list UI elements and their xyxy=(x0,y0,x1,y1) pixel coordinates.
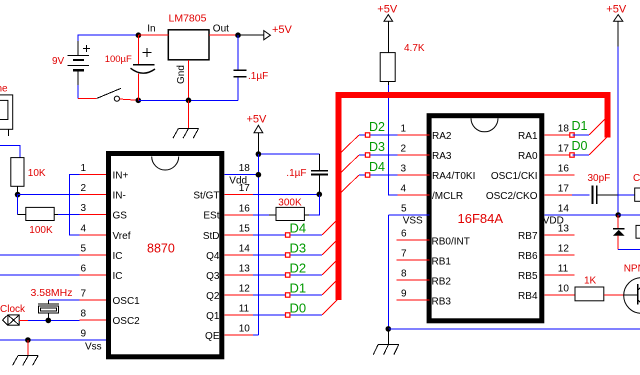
svg-text:D1: D1 xyxy=(572,119,588,133)
svg-text:16F84A: 16F84A xyxy=(458,211,504,226)
wire In xyxy=(138,34,168,36)
wire IC pin5 xyxy=(0,254,80,256)
svg-text:30pF: 30pF xyxy=(588,173,611,184)
svg-text:6: 6 xyxy=(401,229,407,240)
wire 100K to GS xyxy=(54,214,58,216)
pin labels PIC right xyxy=(486,131,538,302)
wire cap to crystal xyxy=(618,194,635,196)
svg-text:11: 11 xyxy=(239,304,250,315)
resistor R1 10K xyxy=(11,158,46,195)
pin stub RA0 / wire D0 xyxy=(544,154,570,156)
wire diode bottom right xyxy=(618,249,640,251)
pin stub OSC2/CKO xyxy=(544,194,589,196)
svg-text:IC: IC xyxy=(113,271,123,282)
node D2 tap xyxy=(286,273,290,277)
pin stub OSC1/CKI xyxy=(544,174,574,176)
svg-text:12: 12 xyxy=(239,284,251,295)
wire to 300K xyxy=(309,195,319,215)
relay (cut at edge) xyxy=(636,225,640,238)
svg-text:3: 3 xyxy=(401,164,407,175)
svg-text:300K: 300K xyxy=(278,197,302,208)
wire Gnd stub xyxy=(188,60,190,101)
node +5V junction xyxy=(256,151,262,157)
svg-text:4.7K: 4.7K xyxy=(404,43,425,54)
wire to ground xyxy=(27,340,29,355)
pin numbers 8870 right xyxy=(239,163,251,334)
wire phone line to 10K xyxy=(0,145,20,157)
clock source symbol xyxy=(3,315,20,325)
pin stub Q2 / wire D1 xyxy=(224,294,322,296)
svg-text:3: 3 xyxy=(81,203,87,214)
wire battery to switch xyxy=(78,97,97,99)
wire D3 diagonal from bus xyxy=(341,155,359,173)
node D0 tap (PIC) xyxy=(570,153,574,157)
ground xyxy=(373,344,399,354)
ground xyxy=(13,355,39,365)
pin numbers PIC right xyxy=(558,124,570,295)
pin labels 8870 left xyxy=(113,171,141,327)
node D2 tap (PIC) xyxy=(365,133,369,137)
svg-text:Out: Out xyxy=(213,24,229,35)
node D4 tap xyxy=(286,233,290,237)
wire bottom rail xyxy=(138,99,238,101)
pin stub ESt xyxy=(224,214,276,216)
bus (thick red) xyxy=(339,95,608,300)
node crystal/OSC2 junction xyxy=(46,318,52,324)
svg-text:2: 2 xyxy=(81,183,87,194)
pin stub RB4 xyxy=(544,294,575,296)
wire IN- row xyxy=(18,194,80,196)
svg-text:OSC2: OSC2 xyxy=(113,316,141,327)
+5V arrow top right xyxy=(606,3,627,46)
svg-text:10K: 10K xyxy=(28,168,46,179)
wire D2 diagonal from bus xyxy=(341,135,359,153)
svg-text:9V: 9V xyxy=(52,56,65,67)
svg-text:3.58MHz: 3.58MHz xyxy=(31,287,73,299)
resistor R6 1K xyxy=(575,275,604,301)
svg-text:4: 4 xyxy=(81,224,87,235)
svg-text:5: 5 xyxy=(401,204,407,215)
node VSS rail junction xyxy=(386,326,392,332)
svg-text:1K: 1K xyxy=(584,275,597,286)
svg-text:Q4: Q4 xyxy=(206,251,220,262)
resistor R2 100K xyxy=(26,207,54,236)
svg-text:IN-: IN- xyxy=(113,191,126,202)
svg-text:5: 5 xyxy=(81,244,87,255)
svg-text:Clock: Clock xyxy=(0,304,26,315)
svg-text:8870: 8870 xyxy=(147,242,175,256)
svg-text:RB5: RB5 xyxy=(518,271,538,282)
wire to ground xyxy=(387,329,389,345)
svg-text:4: 4 xyxy=(401,184,407,195)
wire 100K branch xyxy=(17,195,19,215)
svg-text:D2: D2 xyxy=(290,260,307,275)
svg-text:C: C xyxy=(633,173,640,184)
svg-text:GS: GS xyxy=(113,211,128,222)
wire VSS down to rail xyxy=(387,215,389,329)
pin stub Q4 / wire D3 xyxy=(224,254,322,256)
wire OSC1 pin7 xyxy=(48,299,79,301)
svg-text:LM7805: LM7805 xyxy=(169,13,207,25)
svg-text:13: 13 xyxy=(239,264,251,275)
svg-text:QE: QE xyxy=(205,331,220,342)
svg-text:16: 16 xyxy=(239,204,251,215)
svg-text:IN+: IN+ xyxy=(113,171,129,182)
transistor Q1 NPN (cut at edge) xyxy=(624,263,640,313)
svg-text:RA0: RA0 xyxy=(518,151,538,162)
node St/GT junction xyxy=(317,192,323,198)
node Vdd junction xyxy=(256,172,262,178)
svg-text:.1µF: .1µF xyxy=(248,71,268,82)
svg-text:OSC2/CKO: OSC2/CKO xyxy=(486,191,538,202)
node D4 tap (PIC) xyxy=(365,173,369,177)
svg-text:NPN: NPN xyxy=(624,263,640,274)
svg-text:12: 12 xyxy=(558,244,570,255)
svg-text:1: 1 xyxy=(81,163,87,174)
svg-text:Vref: Vref xyxy=(113,231,131,242)
wire VSS rail right xyxy=(388,328,640,330)
svg-text:D1: D1 xyxy=(290,280,307,295)
svg-text:D4: D4 xyxy=(369,160,385,174)
svg-text:D3: D3 xyxy=(369,140,385,154)
svg-text:10: 10 xyxy=(239,324,251,335)
pin stubs PIC left 6-9 xyxy=(396,240,429,300)
node In junction xyxy=(136,32,142,38)
wire VDD to relay xyxy=(618,214,640,216)
svg-text:1: 1 xyxy=(401,124,407,135)
resistor R5 4.7K with +5V xyxy=(377,3,425,81)
svg-text:OSC1: OSC1 xyxy=(113,296,141,307)
svg-text:Gnd: Gnd xyxy=(176,65,187,84)
svg-text:RB1: RB1 xyxy=(432,257,452,268)
svg-text:17: 17 xyxy=(558,184,570,195)
capacitor C4 30pF xyxy=(588,173,619,204)
svg-text:ne: ne xyxy=(0,84,8,95)
node Out junction xyxy=(235,32,241,38)
svg-text:17: 17 xyxy=(558,144,570,155)
wire vertical pin1-pin4 xyxy=(69,175,79,235)
resistor R4 300K xyxy=(276,197,304,220)
svg-text:8: 8 xyxy=(401,269,407,280)
capacitor C2 .1uF xyxy=(234,35,269,100)
crystal X2 (cut at edge) xyxy=(635,188,640,201)
diode D5 flyback xyxy=(613,215,625,250)
node D3 tap xyxy=(286,253,290,257)
transformer (phone line, cut at edge) xyxy=(0,95,13,136)
svg-text:10: 10 xyxy=(558,284,570,295)
node Vss ground junction xyxy=(25,337,31,343)
svg-text:/MCLR: /MCLR xyxy=(432,191,463,202)
pin stubs 8870 left pins 1-8 xyxy=(80,175,107,320)
wire D1 to bus xyxy=(322,279,338,295)
wire battery top to In node xyxy=(78,35,138,41)
svg-text:VSS: VSS xyxy=(403,215,423,226)
svg-text:+5V: +5V xyxy=(377,3,398,15)
wire D0 diagonal to bus xyxy=(589,137,608,156)
wire D1 diagonal to bus xyxy=(589,119,605,135)
wire D3 to RA3 xyxy=(359,154,398,156)
svg-text:+5V: +5V xyxy=(272,24,293,36)
wire D0 to bus xyxy=(322,299,339,316)
wire battery bottom xyxy=(77,85,79,98)
pin stub Q3 / wire D2 xyxy=(224,274,322,276)
svg-text:Vss: Vss xyxy=(85,342,102,353)
node D0 tap xyxy=(286,313,290,317)
svg-text:6: 6 xyxy=(81,264,87,275)
IC U2 16F84A xyxy=(429,116,542,321)
pin stub QE xyxy=(224,334,258,336)
svg-text:D3: D3 xyxy=(290,240,307,255)
wire D0 xyxy=(573,154,589,156)
pin stub StD / wire D4 xyxy=(224,234,322,236)
svg-text:16: 16 xyxy=(558,164,570,175)
svg-text:+5V: +5V xyxy=(247,113,268,125)
wire D1 xyxy=(573,134,589,136)
svg-text:.1µF: .1µF xyxy=(286,168,306,179)
svg-text:RA2: RA2 xyxy=(432,131,452,142)
svg-text:14: 14 xyxy=(239,244,251,255)
svg-text:RB7: RB7 xyxy=(518,231,538,242)
regulator U3 LM7805 xyxy=(147,13,229,85)
svg-text:18: 18 xyxy=(239,163,251,174)
wire D4 diagonal from bus xyxy=(341,175,359,193)
svg-text:18: 18 xyxy=(558,124,570,135)
wire VSS pin5 xyxy=(388,214,429,216)
wire D4 to bus xyxy=(322,219,338,235)
svg-text:100µF: 100µF xyxy=(105,54,132,65)
switch S1 xyxy=(97,88,139,101)
wire D4 to RA4 xyxy=(359,174,398,176)
node D1 tap xyxy=(286,293,290,297)
wire Vss pin9 xyxy=(0,339,107,341)
pin stub St/GT and wire to cap xyxy=(224,194,319,196)
ground xyxy=(173,128,199,138)
svg-text:RB3: RB3 xyxy=(432,297,452,308)
svg-text:RA3: RA3 xyxy=(432,151,452,162)
pin stubs RB7 RB6 RB5 xyxy=(544,235,574,275)
node D3 tap (PIC) xyxy=(365,153,369,157)
pin labels PIC left xyxy=(432,131,476,308)
pin stub RA1 / wire D1 xyxy=(544,134,570,136)
svg-text:+5V: +5V xyxy=(606,3,627,15)
svg-text:D0: D0 xyxy=(572,139,588,153)
svg-text:11: 11 xyxy=(558,264,569,275)
svg-text:St/GT: St/GT xyxy=(193,191,219,202)
wire +5V down to VDD xyxy=(617,46,619,215)
svg-text:In: In xyxy=(147,24,155,35)
svg-text:Q3: Q3 xyxy=(206,271,220,282)
svg-text:Q1: Q1 xyxy=(206,311,220,322)
node switch/rail junction xyxy=(136,98,142,104)
svg-text:RA4/T0KI: RA4/T0KI xyxy=(432,171,475,182)
wire 1K to base xyxy=(604,294,624,296)
pin numbers PIC left xyxy=(401,124,408,300)
wire D2 to bus xyxy=(322,259,338,275)
capacitor C3 .1uF (8870) xyxy=(286,168,328,195)
svg-text:RB2: RB2 xyxy=(432,277,452,288)
wire vertical Vdd/QE xyxy=(257,154,259,335)
svg-text:7: 7 xyxy=(81,289,87,300)
wire +5V rail to cap xyxy=(258,153,319,155)
svg-text:9: 9 xyxy=(81,329,87,340)
wire gnd down xyxy=(188,100,190,128)
IC U1 8870 xyxy=(109,154,222,357)
svg-text:D4: D4 xyxy=(290,220,307,235)
svg-text:RA1: RA1 xyxy=(518,131,538,142)
svg-text:9: 9 xyxy=(401,289,407,300)
battery 9V xyxy=(68,41,91,85)
svg-text:7: 7 xyxy=(401,249,407,260)
svg-text:15: 15 xyxy=(239,224,251,235)
svg-text:D0: D0 xyxy=(290,300,307,315)
wire Out xyxy=(209,34,238,36)
pin stub Vdd 18 xyxy=(224,174,258,176)
capacitor C1 100uF xyxy=(105,35,155,100)
svg-text:D2: D2 xyxy=(369,120,385,134)
wire IC pin6 xyxy=(0,274,80,276)
svg-text:IC: IC xyxy=(113,251,123,262)
svg-text:StD: StD xyxy=(203,231,220,242)
wire Out to +5V arrow xyxy=(238,34,264,36)
pin numbers 8870 left xyxy=(81,163,87,339)
wire D2 to RA2 xyxy=(359,134,398,136)
svg-text:OSC1/CKI: OSC1/CKI xyxy=(491,171,538,182)
wire 4.7K to /MCLR xyxy=(387,82,389,85)
pin stub Q1 / wire D0 xyxy=(224,314,322,316)
svg-text:Q2: Q2 xyxy=(206,291,220,302)
+5V arrow (8870) xyxy=(247,113,268,154)
svg-text:2: 2 xyxy=(401,144,407,155)
svg-text:100K: 100K xyxy=(29,225,53,236)
node VDD junction xyxy=(615,212,621,218)
svg-text:RB0/INT: RB0/INT xyxy=(432,237,470,248)
wire D3 to bus xyxy=(322,239,338,255)
svg-text:17: 17 xyxy=(239,183,251,194)
svg-text:8: 8 xyxy=(81,309,87,320)
wire VDD pin14 xyxy=(544,214,618,216)
+5V arrow right xyxy=(264,31,271,40)
svg-text:14: 14 xyxy=(558,204,570,215)
node D1 tap (PIC) xyxy=(570,133,574,137)
node junction 10K/100K/IN- xyxy=(15,192,21,198)
node rail/gnd junction xyxy=(186,98,192,104)
crystal X1 3.58MHz xyxy=(31,287,73,321)
pin stubs PIC left 1-4 xyxy=(398,135,430,195)
svg-text:RB4: RB4 xyxy=(518,291,538,302)
svg-text:VDD: VDD xyxy=(543,215,564,226)
wire clock to OSC2 pin8 xyxy=(19,319,79,321)
svg-text:ESt: ESt xyxy=(203,211,219,222)
pin labels 8870 right xyxy=(193,191,220,342)
svg-text:RB6: RB6 xyxy=(518,251,538,262)
